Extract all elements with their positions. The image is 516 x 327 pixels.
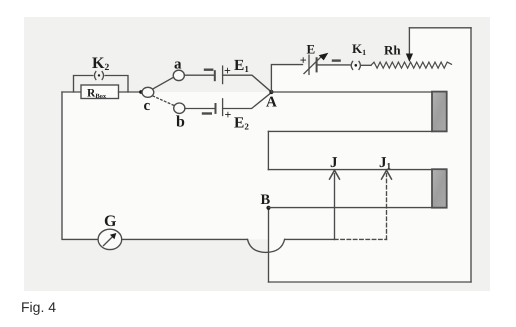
wire hop (crossover under B wire) xyxy=(248,239,285,252)
svg-text:b: b xyxy=(176,113,185,130)
svg-text:a: a xyxy=(174,57,182,73)
potentiometer wire fold (left) xyxy=(267,131,269,169)
wire: galvanometer to crossover xyxy=(122,238,248,240)
terminal b xyxy=(174,103,185,130)
node: junction at switch pivot xyxy=(139,90,143,94)
dashed wire to alternate jockey position xyxy=(335,238,387,240)
cell E1 xyxy=(205,57,249,83)
key K1 xyxy=(351,41,366,69)
wire: tap to right edge xyxy=(409,27,471,29)
potentiometer wire segment 2 xyxy=(268,130,432,132)
galvanometer G xyxy=(98,213,122,250)
potentiometer wire segment 1 (A to top block) xyxy=(271,91,432,93)
jockey J xyxy=(330,155,340,240)
switch common terminal c xyxy=(142,87,154,114)
svg-text:E: E xyxy=(307,42,316,57)
wire: node A up to driver battery E xyxy=(271,65,302,92)
svg-text:+: + xyxy=(225,107,232,121)
figure background xyxy=(24,17,490,291)
wire: crossover to jockey J xyxy=(285,238,335,240)
terminal a xyxy=(173,57,184,81)
node B xyxy=(261,192,271,210)
svg-text:B: B xyxy=(261,192,271,208)
potentiometer terminal block middle xyxy=(432,169,447,208)
potentiometer terminal block top xyxy=(432,92,447,132)
rheostat Rh (zigzag) xyxy=(371,43,452,68)
svg-text:J: J xyxy=(330,155,338,171)
svg-text:Rh: Rh xyxy=(384,43,401,58)
wire: a to cell E1 xyxy=(184,74,214,76)
jockey J1 (alternate position, dashed) xyxy=(379,155,392,240)
wire: b to cell E2 xyxy=(185,108,215,110)
svg-text:A: A xyxy=(266,95,277,111)
switch blade: c to b (open, dotted) xyxy=(153,96,174,106)
wire: battery E to key K1 xyxy=(317,64,350,66)
key K2 (parallel to R_Box) xyxy=(74,55,129,92)
potentiometer wire segment 3 (jockey track) xyxy=(268,169,432,171)
wire: left vertical from R_box junction down to galvanometer xyxy=(62,92,98,239)
battery E (variable, with arrow) xyxy=(300,42,340,75)
wire: E2 to node A xyxy=(223,93,272,109)
wire: left junction to resistance box xyxy=(62,91,81,93)
wire: key K1 to rheostat xyxy=(362,64,371,66)
cell E2 xyxy=(203,99,249,132)
wire: B vertical xyxy=(268,208,270,282)
rheostat tap arrow xyxy=(406,28,413,62)
svg-text:c: c xyxy=(144,98,151,114)
svg-text:G: G xyxy=(104,213,117,230)
wire: right vertical xyxy=(470,28,472,282)
svg-text:Fig. 4: Fig. 4 xyxy=(21,299,56,315)
wire: resistance box to switch pivot c xyxy=(119,91,143,93)
potentiometer wire segment 4 (to B) xyxy=(269,207,433,209)
switch blade: c to a (closed position) xyxy=(153,77,174,89)
resistance box R_Box xyxy=(81,85,119,100)
wire: bottom horizontal to B branch xyxy=(269,281,472,283)
node A xyxy=(266,90,277,111)
wire: E1 to node A xyxy=(223,75,272,92)
